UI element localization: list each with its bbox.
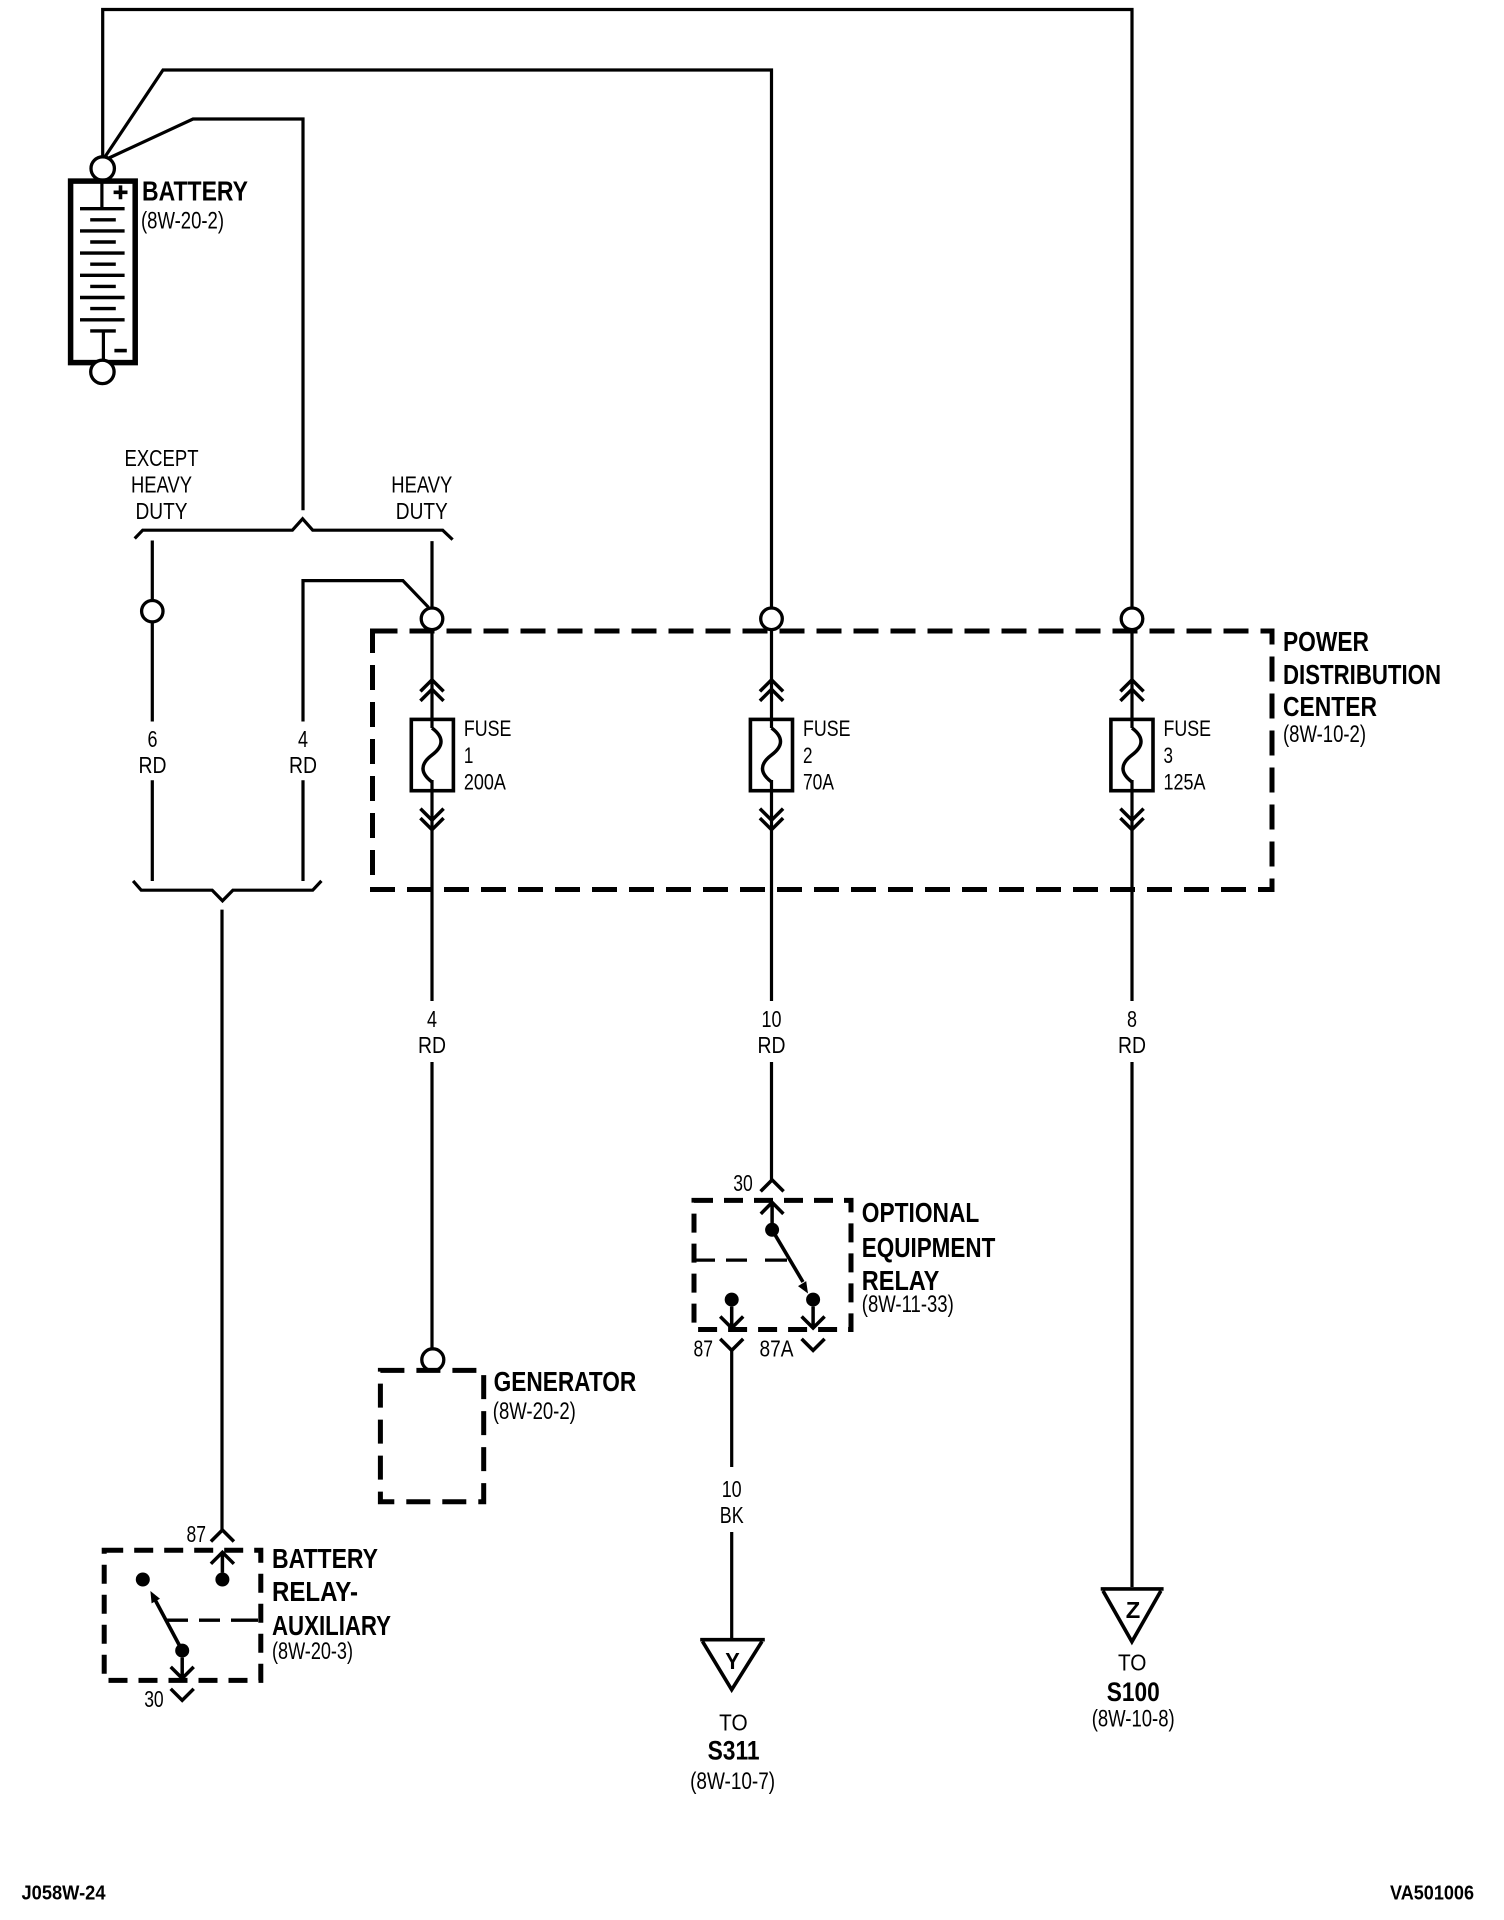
- battery relay stationary contact dot: [136, 1573, 150, 1587]
- svg-text:Z: Z: [1126, 1597, 1141, 1623]
- svg-text:DUTY: DUTY: [396, 498, 448, 524]
- svg-text:87: 87: [187, 1521, 207, 1547]
- svg-text:HEAVY: HEAVY: [131, 471, 192, 497]
- battery relay coil midline: [167, 1619, 258, 1622]
- svg-text:CENTER: CENTER: [1283, 691, 1377, 722]
- wire 10 BK relay 87 to connector Y: [730, 1350, 733, 1638]
- svg-text:(8W-20-2): (8W-20-2): [141, 208, 224, 235]
- svg-text:10: 10: [722, 1476, 742, 1502]
- svg-text:RELAY-: RELAY-: [272, 1576, 358, 1607]
- svg-text:8: 8: [1127, 1006, 1137, 1032]
- battery relay pin 30 contact dot: [175, 1644, 189, 1658]
- brace merging 6 RD and 4 RD (lower): [133, 881, 321, 901]
- svg-text:DISTRIBUTION: DISTRIBUTION: [1283, 659, 1441, 690]
- svg-text:BATTERY: BATTERY: [142, 175, 248, 206]
- fuse F2: [750, 630, 792, 1001]
- node generator terminal: [422, 1349, 444, 1371]
- pin 87A wire-start flare: [802, 1339, 825, 1351]
- svg-text:DUTY: DUTY: [136, 498, 188, 524]
- battery relay pin 87 entry arrow: [211, 1552, 234, 1572]
- svg-text:(8W-20-3): (8W-20-3): [272, 1638, 353, 1665]
- svg-text:BATTERY: BATTERY: [272, 1543, 378, 1574]
- svg-text:1: 1: [464, 743, 474, 768]
- svg-text:87A: 87A: [760, 1336, 795, 1362]
- svg-text:(8W-10-7): (8W-10-7): [690, 1768, 775, 1795]
- svg-text:3: 3: [1164, 743, 1174, 768]
- wire 8 RD fuse 3 to connector Z: [1130, 1062, 1133, 1587]
- fuse F3: [1111, 630, 1153, 1001]
- brace splitting battery feed (upper): [135, 519, 453, 540]
- svg-text:(8W-10-2): (8W-10-2): [1283, 721, 1366, 748]
- power distribution center box: [373, 631, 1273, 890]
- svg-text:TO: TO: [719, 1710, 748, 1736]
- svg-text:EXCEPT: EXCEPT: [125, 445, 199, 471]
- svg-text:S311: S311: [708, 1735, 760, 1765]
- svg-text:GENERATOR: GENERATOR: [494, 1366, 637, 1397]
- wire 10 RD fuse 2 to relay pin 30: [770, 1062, 773, 1180]
- svg-text:4: 4: [427, 1006, 437, 1032]
- battery relay-auxiliary box: [104, 1550, 261, 1680]
- svg-text:4: 4: [298, 726, 308, 752]
- pin 87 contact dot: [725, 1293, 739, 1307]
- battery plus sign: [114, 185, 128, 199]
- node fuse 3 feed: [1121, 608, 1143, 630]
- svg-text:TO: TO: [1118, 1649, 1147, 1675]
- svg-text:(8W-10-8): (8W-10-8): [1092, 1706, 1175, 1733]
- battery relay pin 87 wire-end flare: [211, 1530, 234, 1542]
- relay coil midline: [694, 1258, 787, 1261]
- relay switch arm: [772, 1230, 803, 1282]
- wire battery positive to fuse 2 feed: [103, 70, 771, 608]
- svg-text:S100: S100: [1107, 1677, 1160, 1707]
- wire heavy-duty brace to fuse 1 feed: [430, 541, 433, 608]
- svg-text:RD: RD: [758, 1032, 786, 1058]
- svg-text:200A: 200A: [464, 770, 506, 795]
- svg-text:30: 30: [733, 1170, 753, 1196]
- battery relay pin 87 contact dot: [215, 1573, 229, 1587]
- svg-text:OPTIONAL: OPTIONAL: [862, 1197, 980, 1228]
- svg-text:FUSE: FUSE: [803, 716, 851, 741]
- svg-text:125A: 125A: [1164, 770, 1206, 795]
- battery relay pin 30 wire-start flare: [171, 1689, 194, 1701]
- fuse F1: [411, 630, 453, 1001]
- battery B1 positive terminal: [91, 157, 114, 180]
- svg-text:HEAVY: HEAVY: [391, 471, 452, 497]
- svg-text:FUSE: FUSE: [464, 716, 512, 741]
- battery B1 body: [71, 180, 136, 362]
- pin 30 entry arrow: [761, 1202, 784, 1223]
- battery minus sign: [114, 349, 126, 353]
- battery relay switch arm: [155, 1600, 182, 1651]
- svg-text:VA501006: VA501006: [1390, 1883, 1474, 1905]
- svg-text:87: 87: [694, 1335, 714, 1361]
- svg-text:RD: RD: [418, 1032, 446, 1058]
- optional equipment relay box: [694, 1200, 851, 1329]
- svg-text:(8W-20-2): (8W-20-2): [493, 1398, 576, 1425]
- node connector except-heavy-duty: [142, 601, 163, 622]
- svg-text:POWER: POWER: [1283, 626, 1369, 657]
- pin 87 exit arrow: [720, 1307, 743, 1328]
- connector Z triangle: [1101, 1589, 1164, 1642]
- battery B1 negative terminal: [91, 360, 114, 383]
- wire brace to battery relay pin 87: [220, 910, 223, 1530]
- svg-text:10: 10: [762, 1006, 782, 1032]
- node fuse 1 feed: [421, 608, 443, 630]
- node fuse 2 feed: [761, 608, 783, 630]
- svg-text:6: 6: [148, 726, 158, 752]
- pin 87A exit arrow: [802, 1307, 825, 1328]
- svg-text:J058W-24: J058W-24: [22, 1883, 107, 1905]
- svg-text:RD: RD: [139, 752, 167, 778]
- pin 30 wire-end flare: [761, 1180, 784, 1192]
- svg-text:2: 2: [803, 743, 813, 768]
- svg-text:(8W-11-33): (8W-11-33): [862, 1291, 954, 1318]
- wire 4 RD fuse 1 to generator: [430, 1062, 433, 1349]
- pin 87A contact dot: [806, 1293, 820, 1307]
- svg-text:AUXILIARY: AUXILIARY: [272, 1610, 391, 1641]
- wire battery positive to heavy-duty brace: [104, 119, 303, 510]
- pin 30 contact dot: [765, 1223, 779, 1237]
- connector Y triangle: [700, 1640, 765, 1690]
- svg-text:RD: RD: [1118, 1032, 1146, 1058]
- generator box: [380, 1370, 483, 1501]
- svg-text:Y: Y: [725, 1648, 740, 1674]
- battery relay pin 30 exit arrow: [171, 1658, 194, 1679]
- svg-text:30: 30: [144, 1686, 164, 1712]
- svg-text:BK: BK: [720, 1502, 744, 1528]
- wire 6 RD to lower brace: [151, 622, 154, 881]
- svg-text:FUSE: FUSE: [1164, 716, 1212, 741]
- wire battery positive to fuse 3 feed (top run): [103, 10, 1132, 608]
- pin 87 wire-start flare: [720, 1339, 743, 1351]
- svg-text:RD: RD: [289, 752, 317, 778]
- svg-text:70A: 70A: [803, 770, 834, 795]
- svg-text:EQUIPMENT: EQUIPMENT: [862, 1232, 996, 1263]
- wire 4 RD corner to fuse 1 node: [303, 581, 429, 881]
- wire 6 RD upper segment: [151, 541, 154, 601]
